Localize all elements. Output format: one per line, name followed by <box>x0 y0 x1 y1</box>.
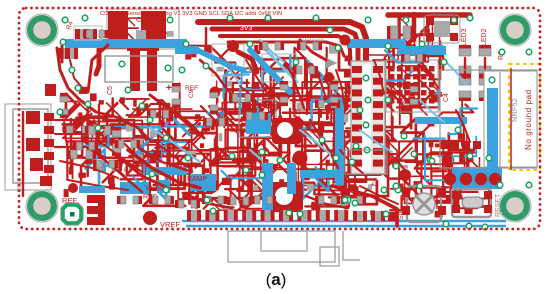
wire blue blob 2 <box>120 182 149 194</box>
wire BL join <box>98 195 105 225</box>
svg-text:CO2 Gas Sensor E0 analog: CO2 Gas Sensor E0 analog V1 3V3 GND SCL … <box>100 11 282 17</box>
wire blue h1 <box>146 167 187 175</box>
CN2 gray pad <box>136 30 146 42</box>
silkscreen module inner line <box>499 72 501 168</box>
component Y1 pad1 <box>426 17 434 25</box>
wire blue diag mid <box>197 50 244 70</box>
svg-text:C28: C28 <box>328 108 335 120</box>
silkscreen L below board <box>343 231 360 260</box>
wire blue vbar right <box>487 88 498 170</box>
resistor R4 <box>75 29 97 39</box>
component Y1 pad3 <box>426 33 434 41</box>
wire lm2 <box>55 133 84 135</box>
component Y1 body <box>434 21 450 37</box>
wire top bundle 4 <box>228 42 344 56</box>
wire lm1 <box>55 120 104 128</box>
copper zone hole bottom <box>267 182 303 212</box>
IC U2 outline <box>386 60 438 112</box>
LED3 body <box>459 45 471 77</box>
connector outline below board <box>228 231 335 262</box>
USB shield pad 3 <box>30 158 43 171</box>
silkscreen C5 box <box>105 56 173 82</box>
mounting hole TL <box>26 14 58 46</box>
wire mesh blue <box>82 46 477 199</box>
USB signal pad 5 <box>44 165 54 173</box>
connector CN2 pad B <box>141 11 166 42</box>
bottom connector pad row <box>187 210 396 221</box>
testpoint TP1 <box>204 179 219 194</box>
silkscreen box SIG <box>345 150 387 174</box>
testpoint TP5 <box>340 35 351 46</box>
cluster left-mid <box>63 126 92 135</box>
svg-text:3V3: 3V3 <box>240 25 253 32</box>
USB pad bottom <box>40 176 52 186</box>
pad BL bar 3 <box>87 217 103 225</box>
wire blue bus right B <box>398 46 446 55</box>
svg-text:R10: R10 <box>238 121 245 133</box>
LED2 body <box>479 45 491 77</box>
connector CN2 pad A <box>108 11 128 42</box>
wire lm4 <box>60 161 118 178</box>
wire blue bus left <box>65 39 187 48</box>
wire SIG frame <box>332 186 397 226</box>
wire top bundle 3 <box>220 36 350 64</box>
component Y1 pad2 <box>450 17 458 25</box>
wire blue blob header <box>452 167 502 189</box>
USB pad top <box>45 84 56 96</box>
header pads round <box>444 173 501 185</box>
testpoint BL dot <box>68 183 78 193</box>
svg-text:(a): (a) <box>266 270 287 289</box>
wire blue under-board 1 <box>182 220 506 223</box>
svg-text:C6: C6 <box>372 177 379 186</box>
silkscreen R4 box <box>74 26 102 40</box>
svg-text:LED3: LED3 <box>461 28 468 46</box>
wire blue vbar left of J3 <box>335 97 344 185</box>
wire lm6 <box>120 120 146 140</box>
wire bus drop <box>61 46 64 62</box>
svg-text:+: + <box>166 83 172 94</box>
wire blue h2 <box>415 117 467 124</box>
no-ground-pad box <box>509 64 540 170</box>
wire blue under-board 2 <box>186 225 506 228</box>
silkscreen box A <box>212 44 244 76</box>
button SW3 body <box>462 197 483 208</box>
vias <box>57 15 532 230</box>
pad BL bar 2 <box>87 206 103 214</box>
USB signal pad 3 <box>44 139 54 147</box>
pad scatter red <box>62 29 500 218</box>
diode D1 <box>162 107 172 121</box>
svg-text:REF: REF <box>62 196 77 205</box>
LED3 body2 <box>459 75 471 101</box>
LED3 trace <box>464 58 466 78</box>
silkscreen box B <box>262 54 296 82</box>
testpoint TP2 <box>293 151 308 166</box>
wire mesh red <box>63 16 497 211</box>
svg-text:VREF: VREF <box>160 220 180 229</box>
button SW2 disc <box>413 193 435 215</box>
svg-text:LED2: LED2 <box>481 28 488 46</box>
USB signal pad 1 <box>44 113 54 121</box>
IC U2 pad grid <box>389 66 435 104</box>
testpoint SIG area <box>399 169 411 181</box>
silkscreen USB connector inner body <box>13 109 48 183</box>
IC U3 pads <box>241 103 273 135</box>
svg-text:RAMP: RAMP <box>187 176 208 183</box>
wire blue h3 <box>300 170 340 178</box>
board outline dotted <box>19 8 540 229</box>
wire blue vbar 1 <box>262 163 273 216</box>
module white area <box>484 71 537 167</box>
silkscreen triangle marker <box>325 57 337 69</box>
wire lm5 <box>68 180 128 190</box>
wire texture blue <box>150 40 466 162</box>
testpoint center <box>210 87 221 98</box>
mounting hole TR <box>499 14 531 46</box>
component below bus <box>57 48 78 59</box>
capacitor bar 2 <box>147 51 157 91</box>
USB signal pad 4 <box>44 152 54 160</box>
svg-text:C4: C4 <box>443 93 450 102</box>
component C10 pads <box>387 26 414 39</box>
wire top right thick <box>388 12 470 18</box>
copper zone hole top <box>272 118 302 144</box>
svg-text:C5: C5 <box>107 86 114 95</box>
button SW2 pads <box>402 188 446 215</box>
button SW2 outline <box>407 186 441 222</box>
silkscreen USB connector outline <box>5 104 51 190</box>
testpoint TP4 <box>227 40 239 52</box>
wire top bundle 1 <box>198 22 366 76</box>
svg-text:C9: C9 <box>188 89 195 98</box>
component Y1 pad4 <box>450 33 458 41</box>
component cluster pads <box>60 30 426 208</box>
connector J3 tall <box>351 61 385 174</box>
pad scatter gray <box>89 31 414 206</box>
wire blue vbar 2 <box>287 163 296 194</box>
wire red corner mid <box>238 52 257 72</box>
wire blue blob 1 <box>190 174 216 191</box>
wire red inside yellow <box>510 68 512 170</box>
pad row right <box>440 141 503 149</box>
wire top bundle 2 <box>212 29 358 76</box>
svg-text:No ground pad: No ground pad <box>524 89 533 150</box>
silkscreen CN2 outline <box>107 9 179 49</box>
LED2 trace <box>484 58 486 78</box>
svg-text:SW1: SW1 <box>386 81 393 95</box>
button SW2 cross <box>416 196 432 212</box>
button SW3 outline <box>452 189 491 217</box>
mounting hole BL <box>26 190 58 222</box>
button SW3 pads <box>452 191 492 213</box>
wire right corner drop <box>412 14 417 40</box>
USB shield pad 1 <box>26 111 40 124</box>
wire blue bus right A <box>348 39 406 48</box>
wire blue bus mid <box>175 46 199 54</box>
silkscreen small box below board <box>320 247 339 266</box>
USB signal pad 2 <box>44 126 54 134</box>
wire blue BL bar <box>79 186 105 193</box>
IC U3 outline <box>239 100 276 137</box>
module outline <box>440 70 537 168</box>
testpoint TR dot <box>324 72 334 82</box>
capacitor top cap <box>127 45 159 51</box>
pad BL bar 1 <box>87 195 103 203</box>
mounting hole BR <box>499 190 531 222</box>
capacitor bar 1 <box>130 51 140 91</box>
svg-text:SIG: SIG <box>398 208 405 220</box>
fiducial octagon <box>61 203 83 225</box>
wire lm3 <box>55 147 106 158</box>
wire blue blob 3 <box>157 180 170 193</box>
connector inner outline <box>261 231 307 251</box>
wire left border vertical <box>22 112 24 196</box>
wire C5 left trace <box>96 45 99 74</box>
wire texture red <box>57 28 470 208</box>
testpoint TP3 <box>143 211 157 225</box>
wire blue diag bundle <box>250 50 290 92</box>
component Y1 outline <box>424 15 460 43</box>
USB shield pad 2 <box>26 138 40 151</box>
testpoint right knot <box>442 155 453 166</box>
LED2 body2 <box>479 75 491 101</box>
